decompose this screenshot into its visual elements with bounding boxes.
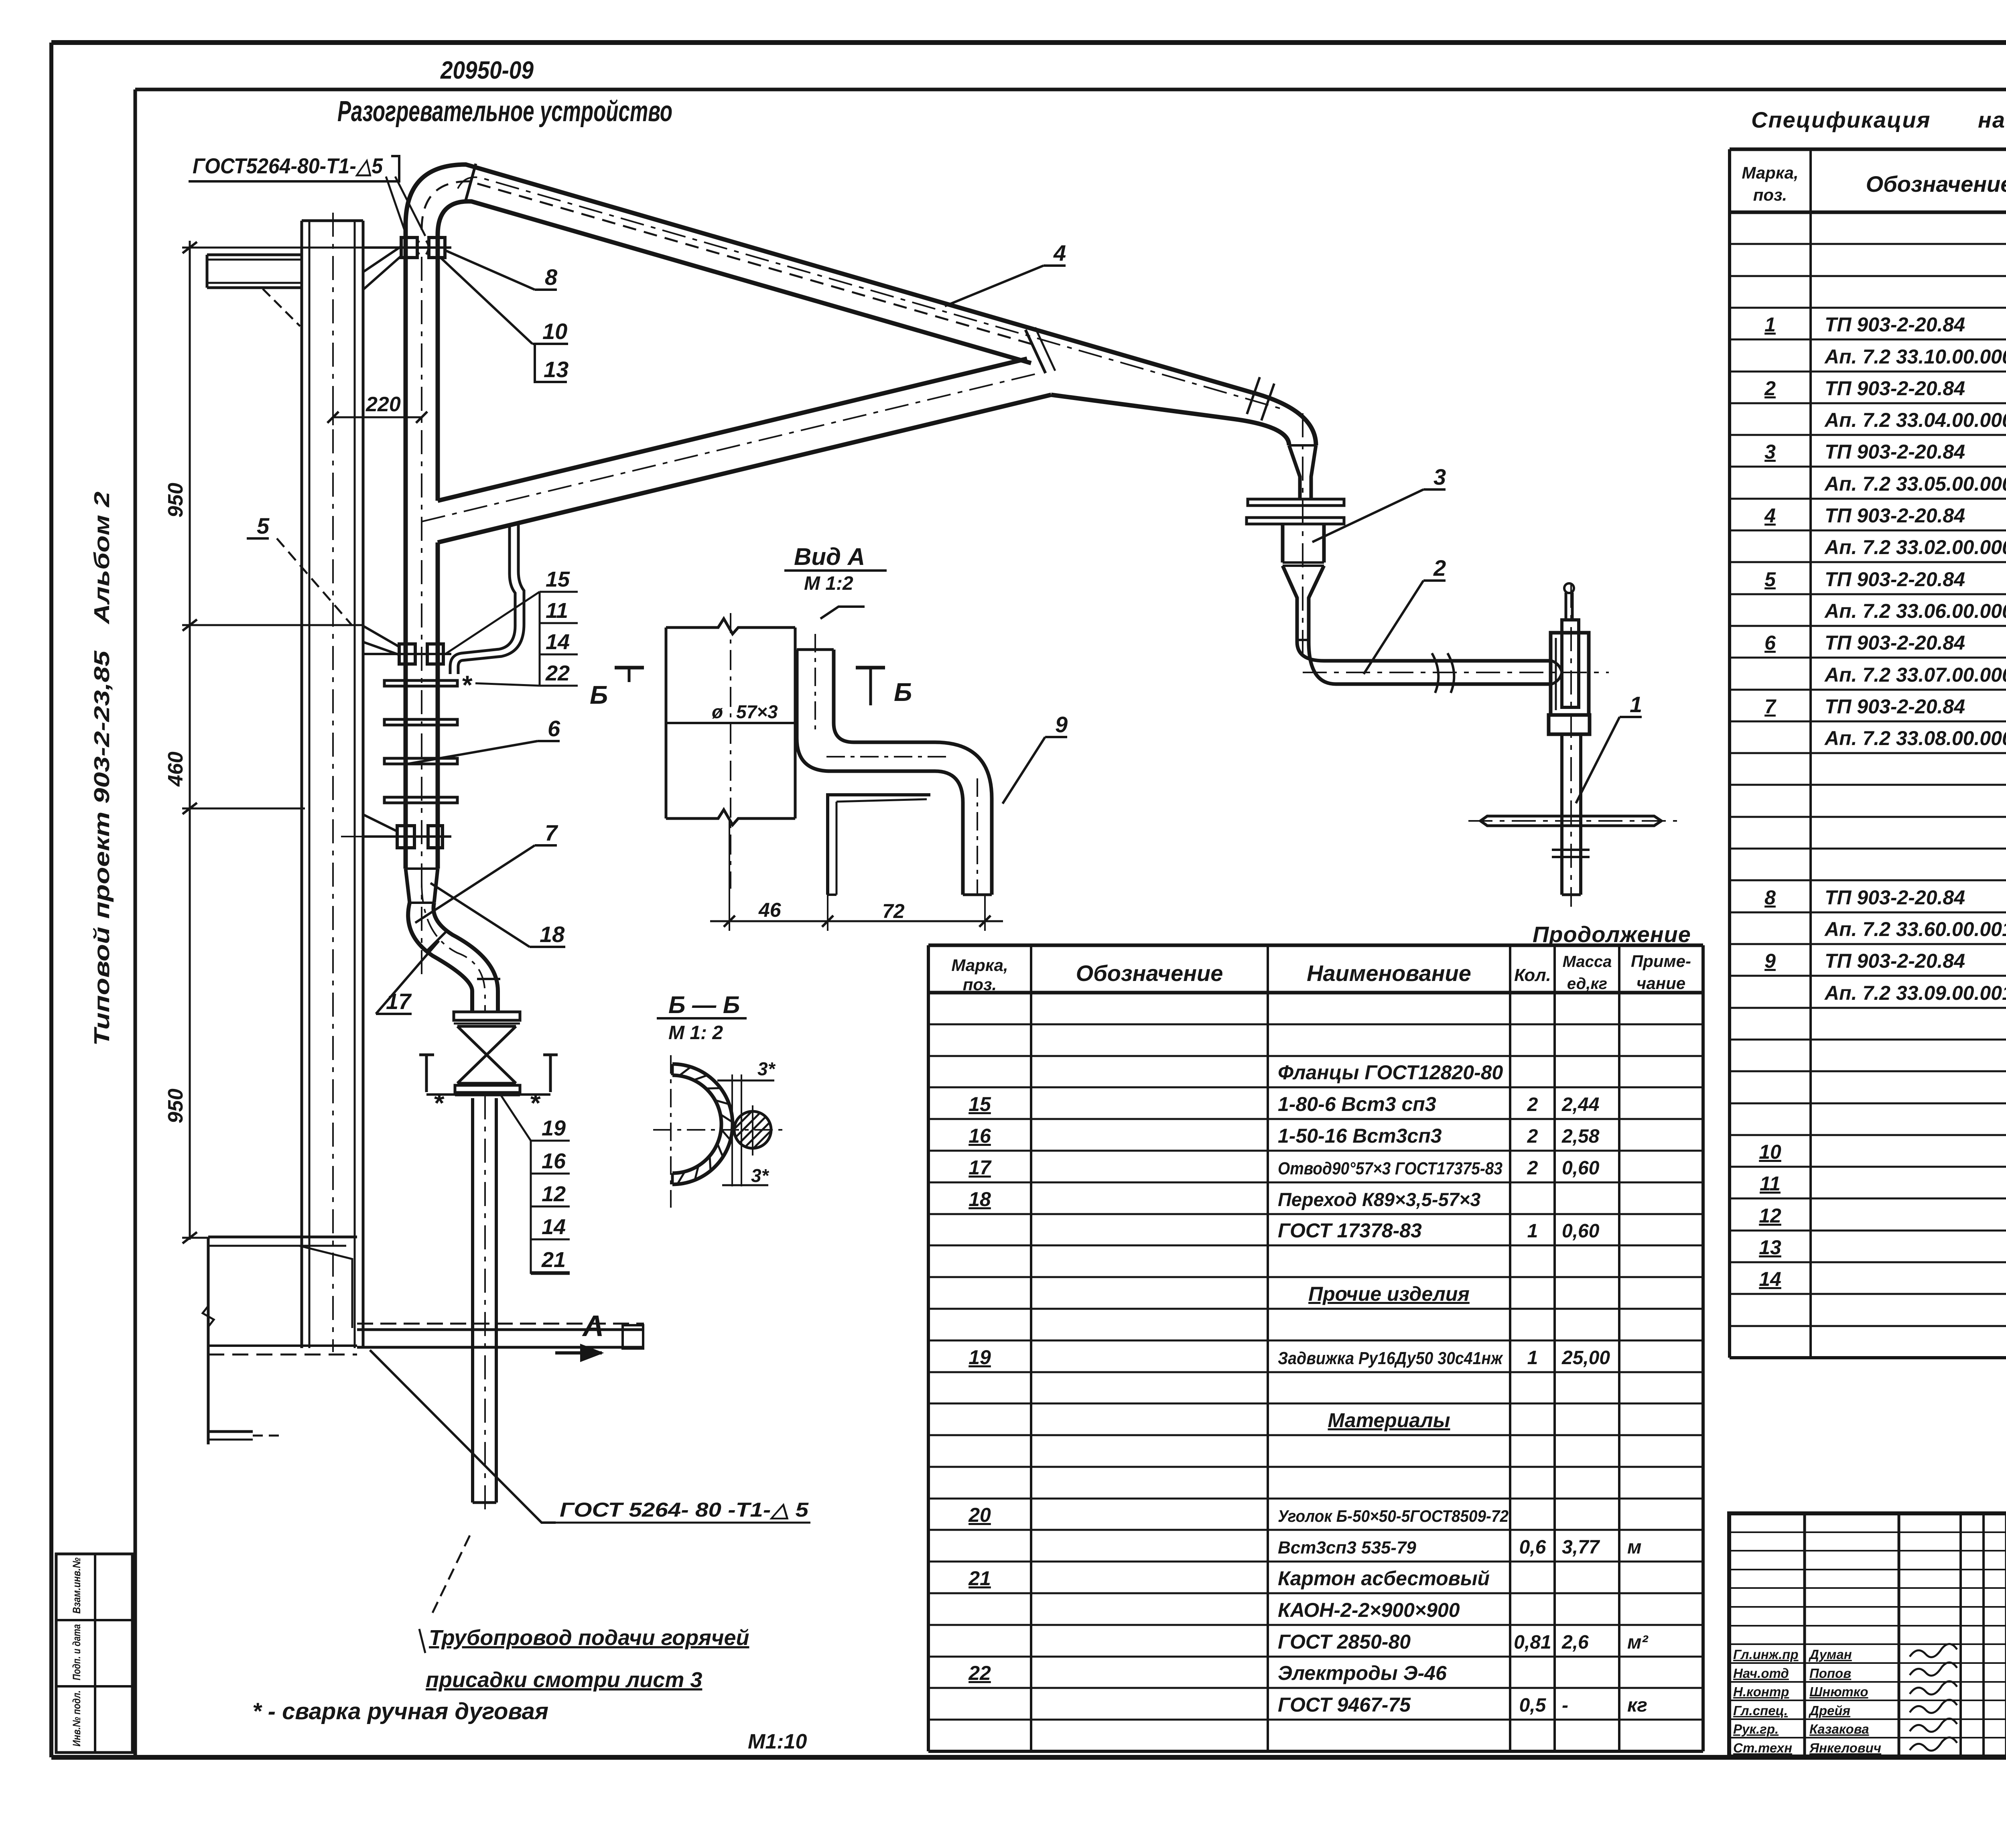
svg-text:16: 16 [968,1125,991,1147]
svg-text:20950-09: 20950-09 [440,57,534,84]
specification table header text [1742,161,2006,205]
svg-text:2,44: 2,44 [1561,1094,1599,1115]
svg-text:Б — Б: Б — Б [668,991,740,1018]
svg-text:11: 11 [546,599,568,623]
svg-text:5: 5 [1764,568,1776,591]
svg-text:Вид А: Вид А [794,543,865,570]
svg-text:Н.контр: Н.контр [1733,1684,1789,1699]
mitre joint lines on diagonal [1025,330,1046,373]
svg-text:*: * [530,1088,541,1118]
svg-text:присадки смотри лист 3: присадки смотри лист 3 [426,1668,702,1692]
svg-text:Обозначение: Обозначение [1866,171,2006,197]
svg-text:Нач.отд: Нач.отд [1733,1666,1789,1681]
riser pipe right wall lower part [436,542,440,869]
label 5 [257,513,270,538]
svg-text:11: 11 [1760,1172,1781,1195]
svg-text:Ап. 7.2 33.10.00.000: Ап. 7.2 33.10.00.000 [1824,345,2006,368]
riser pipe left wall and top bend outer [406,164,1252,869]
svg-text:ГОСТ 2850-80: ГОСТ 2850-80 [1278,1631,1411,1653]
upper bracket struts [363,246,401,272]
svg-text:1: 1 [1764,313,1776,336]
dimension chain line [189,241,191,1240]
svg-text:12: 12 [542,1182,566,1206]
pipe dashed inner contour at bend [422,181,1035,345]
svg-text:ТП 903-2-20.84: ТП 903-2-20.84 [1825,695,1965,718]
svg-text:72: 72 [882,900,905,922]
svg-text:поз.: поз. [963,975,997,994]
label 9 [1055,712,1068,737]
leader from stack to valve [499,1093,531,1141]
view A title [794,543,865,594]
svg-text:0,60: 0,60 [1562,1220,1600,1242]
svg-text:7: 7 [1764,695,1777,718]
svg-text:ø: ø [712,701,723,722]
gland body [1281,524,1285,563]
support beam to pipe [357,1323,644,1325]
svg-text:М 1:2: М 1:2 [804,573,853,594]
B-B hatching on ring [679,1067,691,1076]
svg-text:2: 2 [1433,555,1446,581]
support column (item 4 stoika) [300,221,303,1348]
B-B dim 3 star bottom [722,1184,768,1186]
specification table title [1751,107,2006,132]
svg-text:поз.: поз. [1753,185,1787,204]
svg-text:Типовой проект 903-2-23,85: Типовой проект 903-2-23,85 [90,650,114,1046]
stand post [1560,734,1563,895]
svg-text:ТП 903-2-20.84: ТП 903-2-20.84 [1825,441,1965,463]
horizontal pipe centerline [1303,672,1609,673]
svg-text:1: 1 [1630,692,1642,717]
svg-text:Марка,: Марка, [1742,163,1798,182]
svg-text:18: 18 [968,1188,991,1210]
svg-text:950: 950 [164,1088,187,1123]
svg-text:19: 19 [542,1116,566,1140]
title block text [1733,1532,2006,1755]
svg-text:3*: 3* [757,1058,776,1079]
beam weld leader dashed [263,289,300,326]
cross arm centerline [1468,820,1677,822]
svg-text:Материалы: Материалы [1328,1409,1450,1432]
label 10 [542,319,567,344]
svg-text:1-80-6 Вст3 сп3: 1-80-6 Вст3 сп3 [1278,1093,1436,1115]
label 3 [1433,464,1446,489]
svg-text:0,6: 0,6 [1519,1537,1546,1558]
svg-text:ТП 903-2-20.84: ТП 903-2-20.84 [1825,632,1965,654]
svg-text:25,00: 25,00 [1561,1347,1610,1369]
pipe break marks [1432,653,1438,693]
B-B title [668,991,740,1044]
svg-text:2: 2 [1527,1094,1538,1115]
inner frame line left (binding margin) [134,89,137,1757]
diameter label [712,701,778,722]
svg-text:1: 1 [1527,1347,1538,1369]
svg-text:17: 17 [386,989,412,1014]
lower pipe centerline [484,1095,486,1513]
lower diagonal pipe (heating pipe run) [438,359,1027,501]
weld ticks on post [1552,849,1590,851]
svg-text:Марка,: Марка, [951,956,1008,975]
svg-text:Б: Б [894,678,912,707]
svg-text:Кол.: Кол. [1514,965,1551,985]
side support brackets with weld stars [419,1054,434,1056]
svg-text:*: * [434,1088,445,1118]
svg-text:Думан: Думан [1808,1647,1852,1662]
svg-text:Обозначение: Обозначение [1076,961,1223,986]
svg-text:Ап. 7.2 33.05.00.000: Ап. 7.2 33.05.00.000 [1824,473,2006,495]
B-B pipe wall half ring [672,1064,733,1184]
svg-text:Инв.№ подл.: Инв.№ подл. [71,1690,83,1746]
signatures squiggles [1910,1644,1957,1751]
lower tank block [207,1237,210,1444]
svg-text:Попов: Попов [1809,1666,1851,1681]
svg-text:КАОН-2-2×900×900: КАОН-2-2×900×900 [1278,1599,1460,1621]
B-B dim 3 star top [717,1080,774,1082]
svg-text:18: 18 [540,922,565,947]
stand vertical centerline [1570,584,1572,907]
svg-text:0,81: 0,81 [1514,1632,1551,1653]
view A pipe centerline [815,634,977,895]
label 13 boxed [544,357,569,382]
left margin rotated project label [90,491,114,1046]
svg-text:Задвижка Ру16Ду50 30с41нж: Задвижка Ру16Ду50 30с41нж [1278,1348,1503,1368]
svg-text:-: - [1562,1695,1568,1716]
svg-text:Масса: Масса [1563,953,1612,971]
svg-text:6: 6 [548,716,560,741]
svg-text:13: 13 [544,357,569,382]
svg-text:Рук.гр.: Рук.гр. [1733,1722,1779,1736]
svg-text:М 1: 2: М 1: 2 [668,1022,723,1044]
stand item 1 - top pin with ball [1565,593,1567,620]
lower half-clamp tie rod [363,653,451,655]
label 1 [1630,692,1642,717]
section mark B left [590,680,608,709]
svg-text:1-50-16 Вст3сп3: 1-50-16 Вст3сп3 [1278,1125,1442,1147]
svg-text:Ап. 7.2 33.07.00.000: Ап. 7.2 33.07.00.000 [1824,664,2006,686]
svg-text:А: А [582,1309,604,1342]
pipe centerline riser and diagonal [421,257,422,975]
gate valve item 19 bowtie [457,1026,516,1083]
svg-text:Ап. 7.2 33.09.00.001: Ап. 7.2 33.09.00.001 [1824,982,2006,1004]
svg-text:9: 9 [1764,950,1776,972]
valve flange bottom [455,1085,520,1093]
svg-text:Ап. 7.2 33.02.00.000: Ап. 7.2 33.02.00.000 [1824,536,2006,558]
svg-text:13: 13 [1759,1236,1781,1259]
svg-text:0,60: 0,60 [1562,1158,1600,1179]
specification table grid [1730,149,2006,1358]
dimension line 220 [333,416,422,418]
label 4 [1053,240,1066,266]
clamp leader lines from gost label [386,177,407,237]
svg-text:м: м [1627,1537,1642,1558]
view A column mid line [666,722,795,724]
column centerline [332,213,334,1352]
valve flange top [454,1012,520,1020]
svg-text:Приме-: Приме- [1631,952,1691,971]
reducer item 18 below riser [406,867,438,870]
leaders from label stack to clamp [445,592,540,654]
wall clamp item 7 [363,835,451,838]
svg-text:12: 12 [1759,1204,1781,1227]
svg-text:3: 3 [1433,464,1446,489]
left margin stamp boxes [56,1554,132,1753]
svg-text:460: 460 [164,751,187,787]
svg-text:Переход К89×3,5-57×3: Переход К89×3,5-57×3 [1278,1189,1480,1210]
svg-text:Электроды Э-46: Электроды Э-46 [1278,1662,1447,1684]
svg-text:кг: кг [1627,1695,1647,1716]
svg-text:Дрейя: Дрейя [1808,1703,1850,1718]
B-B centerlines [670,1055,672,1208]
svg-text:3,77: 3,77 [1562,1537,1600,1558]
S-bend joint lines [426,932,446,952]
stand inner tube [1562,620,1579,707]
svg-text:Б: Б [590,680,608,709]
svg-text:Картон асбестовый: Картон асбестовый [1278,1567,1490,1590]
svg-text:Фланцы ГОСТ12820-80: Фланцы ГОСТ12820-80 [1278,1061,1503,1084]
view A mark bottom [582,1309,604,1342]
svg-text:Наименование: Наименование [1307,961,1471,986]
svg-text:ГОСТ 17378-83: ГОСТ 17378-83 [1278,1219,1422,1242]
B-B thickness extension lines [731,1074,733,1186]
lower diagonal centerline [422,373,1039,522]
gost weld label bottom [560,1499,809,1521]
svg-text:ед,кг: ед,кг [1567,975,1607,993]
extension lines [182,247,364,249]
svg-text:Альбом 2: Альбом 2 [90,491,114,625]
svg-text:2,6: 2,6 [1561,1632,1589,1653]
label 6 [548,716,560,741]
svg-text:ГОСТ5264-80-Т1-△5: ГОСТ5264-80-Т1-△5 [193,154,383,178]
inner frame line top [135,88,2006,91]
svg-text:Спецификация: Спецификация [1751,107,1931,132]
svg-text:ТП 903-2-20.84: ТП 903-2-20.84 [1825,886,1965,909]
svg-text:9: 9 [1055,712,1068,737]
svg-text:14: 14 [542,1215,566,1239]
svg-text:14: 14 [546,630,570,654]
svg-text:* - сварка ручная дуговая: * - сварка ручная дуговая [252,1698,548,1724]
elbow to horizontal pipe [1297,642,1324,661]
B-B weld circle hatched [734,1111,771,1148]
small drain pipe from diagonal [450,526,515,674]
svg-text:46: 46 [758,899,782,921]
svg-text:17: 17 [968,1156,992,1179]
svg-text:20: 20 [968,1504,991,1526]
svg-text:Ап. 7.2 33.06.00.000: Ап. 7.2 33.06.00.000 [1824,600,2006,622]
svg-text:ТП 903-2-20.84: ТП 903-2-20.84 [1825,504,1965,527]
svg-text:Гл.инж.пр: Гл.инж.пр [1733,1647,1799,1662]
svg-text:7: 7 [545,820,558,845]
view A dimension lines 46 72 [729,818,730,931]
svg-text:Прочие изделия: Прочие изделия [1308,1283,1470,1305]
svg-text:Шнютко: Шнютко [1809,1684,1868,1699]
svg-text:3*: 3* [751,1165,770,1186]
S-bend elbows item 17 [408,903,472,1012]
view A column rectangle with break lines [665,628,668,818]
svg-text:Уголок Б-50×50-5ГОСТ8509-72: Уголок Б-50×50-5ГОСТ8509-72 [1278,1507,1509,1525]
svg-text:м²: м² [1627,1632,1649,1653]
stand outer sleeve [1551,633,1589,715]
specification table rows [1759,278,2006,1290]
view A pipe J shape [797,650,963,895]
tank wall break zigzag [203,1306,214,1327]
svg-text:22: 22 [545,661,570,685]
view A centerline vertical [730,613,731,889]
lower pipe to tank [471,1098,474,1503]
svg-text:21: 21 [541,1248,566,1272]
upper half-clamp item 8 tie rod [363,246,451,249]
title block main frame [1729,1513,2006,1757]
svg-text:Разогревательное устройство: Разогревательное устройство [337,95,672,128]
label 7 [545,820,558,845]
label 8 [545,264,558,290]
stacked labels 19 16 12 14 21 [541,1116,566,1272]
svg-text:950: 950 [164,483,187,518]
svg-text:6: 6 [1764,632,1776,654]
upper wall beam [207,254,302,256]
svg-text:10: 10 [1759,1141,1781,1163]
continuation table rows [968,1061,1649,1716]
pipe feed note text [426,1626,749,1692]
svg-text:0,5: 0,5 [1519,1695,1547,1716]
upper elbow to vertical gland assembly [1252,392,1316,445]
svg-text:ТП 903-2-20.84: ТП 903-2-20.84 [1825,950,1965,972]
svg-text:ГОСТ 5264- 80 -Т1-△ 5: ГОСТ 5264- 80 -Т1-△ 5 [560,1499,809,1521]
svg-text:Отвод90°57×3 ГОСТ17375-83: Отвод90°57×3 ГОСТ17375-83 [1278,1159,1502,1178]
S-bend centerline [422,883,485,1013]
svg-text:Ап. 7.2 33.04.00.000: Ап. 7.2 33.04.00.000 [1824,409,2006,431]
gland lower cone [1283,566,1297,642]
svg-text:5: 5 [257,513,270,538]
svg-text:Ап. 7.2 33.60.00.001: Ап. 7.2 33.60.00.001 [1824,918,2006,940]
svg-text:Трубопровод подачи горячей: Трубопровод подачи горячей [429,1626,749,1650]
svg-text:2: 2 [1527,1126,1538,1147]
stacked labels 15 11 14 22 [545,567,570,685]
svg-text:21: 21 [968,1567,991,1590]
svg-text:Подп. и дата: Подп. и дата [71,1624,83,1680]
gland vertical centerline [1302,413,1303,658]
weld note bottom [252,1698,807,1753]
svg-text:ГОСТ 9467-75: ГОСТ 9467-75 [1278,1694,1411,1716]
weld callout hook top [820,607,865,619]
continuation table grid [928,945,1703,1751]
section mark B right [894,678,912,707]
svg-text:4: 4 [1053,240,1066,266]
svg-text:16: 16 [542,1149,566,1173]
svg-text:чание: чание [1636,974,1685,993]
svg-text:Ст.техн: Ст.техн [1733,1740,1792,1755]
leader dashed from pipe to note [432,1535,470,1614]
svg-text:3: 3 [1764,441,1776,463]
svg-text:22: 22 [968,1662,991,1684]
svg-text:8: 8 [1764,886,1776,909]
svg-text:10: 10 [542,319,567,344]
dimension labels 950 460 950 [164,393,401,1123]
svg-text:2,58: 2,58 [1561,1126,1600,1147]
heating fins on riser [384,680,457,686]
joint line at bend crest [465,164,476,201]
svg-text:М1:10: М1:10 [748,1730,807,1753]
svg-text:Взам.инв.№: Взам.инв.№ [71,1558,83,1614]
svg-text:Казакова: Казакова [1809,1722,1869,1736]
svg-text:15: 15 [546,567,570,591]
svg-text:1: 1 [1527,1220,1538,1242]
lower bracket struts [363,626,399,647]
label 2 [1433,555,1446,581]
svg-text:4: 4 [1764,504,1776,527]
label 17 [386,989,412,1014]
svg-text:2: 2 [1527,1158,1538,1179]
svg-text:220: 220 [365,393,401,416]
svg-text:Вст3сп3 535-79: Вст3сп3 535-79 [1278,1538,1416,1558]
horizontal pipe to stand [1324,659,1552,663]
svg-text:19: 19 [968,1346,991,1369]
gland upper cone [1289,445,1300,499]
angle bracket item 20 [828,795,930,895]
svg-text:*: * [462,670,473,700]
svg-text:8: 8 [545,264,558,290]
stand cross arm [1480,816,1661,826]
svg-text:Продолжение: Продолжение [1533,922,1691,947]
svg-text:Гл.спец.: Гл.спец. [1733,1703,1788,1718]
svg-text:15: 15 [968,1093,991,1115]
svg-text:57×3: 57×3 [736,701,778,722]
svg-text:ТП 903-2-20.84: ТП 903-2-20.84 [1825,313,1965,336]
elbow seam ticks [1247,377,1260,414]
gland flange pair [1248,499,1344,506]
svg-text:Янкелович: Янкелович [1809,1740,1881,1755]
svg-text:14: 14 [1759,1268,1781,1290]
svg-text:на: на [1978,107,2006,132]
svg-text:ТП 903-2-20.84: ТП 903-2-20.84 [1825,377,1965,400]
riser pipe right wall and top bend inner [438,201,1031,501]
svg-text:Ап. 7.2 33.08.00.000: Ап. 7.2 33.08.00.000 [1824,727,2006,749]
continuation table header text [951,952,1691,994]
label 18 [540,922,565,947]
svg-text:ТП 903-2-20.84: ТП 903-2-20.84 [1825,568,1965,591]
svg-text:2: 2 [1764,377,1776,400]
stand collar [1549,715,1590,734]
